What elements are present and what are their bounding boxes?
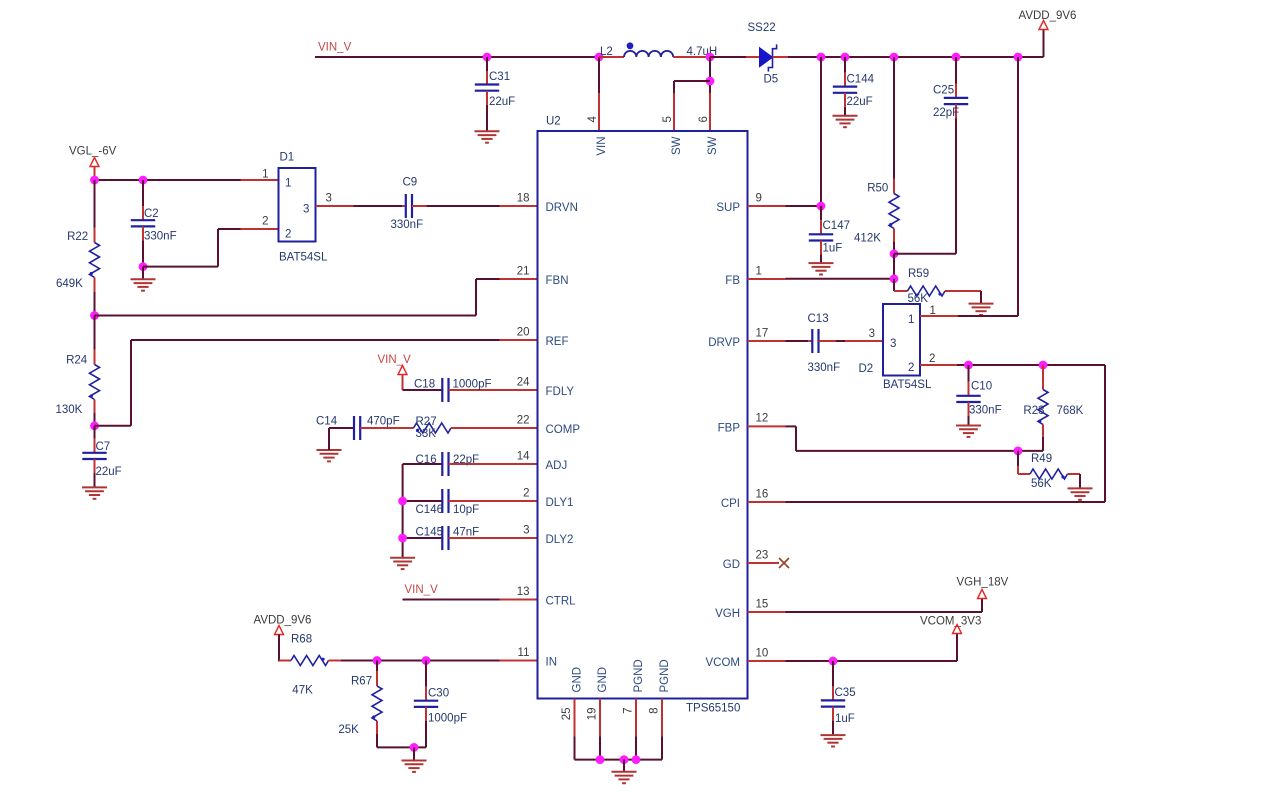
svg-text:C16: C16 (416, 454, 437, 466)
svg-text:13: 13 (517, 586, 530, 598)
wire SW6 pin 6 drop (709, 57, 711, 131)
svg-text:SS22: SS22 (748, 22, 776, 34)
svg-text:1: 1 (756, 265, 762, 277)
capacitor C13 330nF (748, 313, 884, 374)
pin 12 FBP (718, 413, 769, 435)
wire FB net (748, 254, 895, 279)
pin 2 DLY1 (523, 487, 573, 509)
pin 19 GND (587, 667, 610, 720)
svg-text:2: 2 (523, 487, 529, 499)
svg-text:D1: D1 (280, 151, 295, 163)
capacitor C30 1000pF (414, 661, 467, 748)
capacitor C145 47nF (403, 526, 538, 550)
ground (IC GND pins) (612, 760, 637, 784)
ground (R67/C30) (402, 747, 427, 772)
svg-text:2: 2 (285, 228, 291, 240)
svg-text:1000pF: 1000pF (453, 378, 492, 390)
svg-text:1: 1 (908, 314, 914, 326)
wire REF net (95, 340, 538, 426)
svg-text:PGND: PGND (633, 659, 645, 692)
pin 15 VGH (715, 598, 768, 620)
svg-text:AVDD_9V6: AVDD_9V6 (1019, 10, 1077, 22)
node R67 tap (373, 656, 382, 665)
resistor R67 25K (338, 661, 382, 748)
ground (C31) (475, 131, 500, 142)
wire GND bus tie (575, 759, 663, 761)
node D2 pin1 branch junction (1014, 53, 1023, 62)
pin 8 PGND (649, 659, 672, 714)
node C2 tap (139, 176, 148, 185)
resistor R27 33K (414, 416, 538, 440)
wire AVDD rail top (821, 56, 1044, 58)
svg-text:C13: C13 (808, 313, 829, 325)
power symbol VIN_V (FDLY) (398, 366, 407, 391)
pin 5 SW (662, 116, 683, 155)
ground (C10) (956, 426, 981, 437)
node DLY2 tap (398, 534, 407, 543)
wire GND pin 25 (574, 699, 576, 760)
svg-text:2: 2 (908, 362, 914, 374)
node VIN_V / C31 junction (483, 53, 492, 62)
wire R67/C30 bottom tie (377, 746, 426, 748)
svg-text:DLY2: DLY2 (546, 534, 574, 546)
svg-text:R59: R59 (908, 268, 929, 280)
svg-text:2: 2 (929, 353, 935, 365)
ground (R49) (1068, 488, 1093, 499)
capacitor C25 22pF (894, 57, 968, 254)
svg-text:VIN_V: VIN_V (405, 584, 439, 596)
ground (C35) (821, 735, 846, 746)
net label VGL_-6V (69, 146, 117, 158)
node R22/R24/FBN junction (90, 311, 99, 320)
wire VGL rail (94, 179, 279, 181)
wire VGH net + power symbol VGH_18V (748, 590, 987, 613)
capacitor C16 22pF (403, 452, 538, 476)
capacitor C144 22uF (833, 57, 875, 116)
svg-text:19: 19 (587, 708, 599, 721)
svg-text:D5: D5 (764, 74, 779, 86)
ground (R59) (969, 304, 994, 315)
svg-text:C35: C35 (835, 687, 856, 699)
node FBP/R23/R49 junction (1014, 447, 1023, 456)
svg-text:REF: REF (546, 336, 569, 348)
svg-text:BAT54SL: BAT54SL (279, 251, 328, 263)
svg-text:330nF: 330nF (144, 231, 177, 243)
resistor R59 56K (894, 268, 981, 305)
svg-text:FBN: FBN (546, 275, 569, 287)
capacitor C7 22uF (82, 426, 121, 487)
svg-text:L2: L2 (600, 46, 613, 58)
svg-text:COMP: COMP (546, 424, 581, 436)
svg-text:VIN_V: VIN_V (378, 354, 412, 366)
svg-text:R68: R68 (291, 633, 312, 645)
svg-text:12: 12 (756, 413, 769, 425)
node D5/C144 junction (817, 53, 826, 62)
svg-text:C18: C18 (414, 378, 435, 390)
node DLY1 tap (398, 497, 407, 506)
svg-text:8: 8 (649, 708, 661, 714)
svg-text:PGND: PGND (659, 659, 671, 692)
node FB/R59 junction (890, 274, 899, 283)
wire SW5 pin 5 jog (674, 81, 710, 131)
svg-text:21: 21 (517, 265, 530, 277)
svg-text:16: 16 (756, 488, 769, 500)
pin 7 PGND (623, 659, 646, 714)
svg-text:22uF: 22uF (847, 96, 873, 108)
diode D5 SS22 (710, 22, 821, 86)
wire CTRL net (403, 599, 538, 601)
wire D1 pin2 jog (143, 229, 279, 267)
svg-text:DRVP: DRVP (708, 337, 740, 349)
node R24/C7/REF junction (90, 421, 99, 430)
svg-text:1: 1 (285, 177, 291, 189)
svg-text:22: 22 (517, 414, 530, 426)
power symbol AVDD_9V6 (top right) (1019, 10, 1077, 57)
node GND pin19 (596, 755, 605, 764)
svg-text:VGL_-6V: VGL_-6V (69, 146, 117, 158)
node VIN pin junction (595, 53, 604, 62)
inductor L2 4.7uH (599, 42, 717, 58)
node SUP/C147 junction (817, 202, 826, 211)
svg-text:47nF: 47nF (453, 527, 479, 539)
svg-text:R50: R50 (867, 183, 888, 195)
node C2/D1 pin2/ground junction (139, 262, 148, 271)
svg-text:22pF: 22pF (453, 454, 479, 466)
svg-text:R49: R49 (1031, 453, 1052, 465)
capacitor C35 1uF (821, 661, 856, 735)
svg-text:14: 14 (517, 450, 530, 462)
capacitor C10 330nF (956, 365, 1001, 425)
resistor R22 649K (56, 180, 100, 316)
pin 23 GD (723, 549, 769, 571)
svg-text:130K: 130K (56, 404, 83, 416)
svg-text:C31: C31 (489, 71, 510, 83)
svg-text:VIN: VIN (596, 137, 608, 156)
svg-text:ADJ: ADJ (546, 460, 568, 472)
svg-text:VCOM: VCOM (706, 657, 741, 669)
resistor R50 412K (854, 57, 899, 254)
pin 1 FB (725, 265, 762, 287)
svg-text:VCOM_3V3: VCOM_3V3 (920, 615, 981, 627)
svg-text:25K: 25K (338, 724, 359, 736)
wire ADJ/DLY ground column (402, 464, 404, 558)
svg-text:VIN_V: VIN_V (318, 42, 352, 54)
wire SUP net (748, 57, 822, 206)
pin 17 DRVP (708, 327, 768, 349)
node C144 junction (841, 53, 850, 62)
svg-text:3: 3 (890, 338, 896, 350)
svg-text:22uF: 22uF (489, 96, 515, 108)
svg-text:VGH: VGH (715, 608, 740, 620)
svg-text:6: 6 (698, 116, 710, 122)
node R50 junction (890, 53, 899, 62)
svg-text:24: 24 (517, 376, 530, 388)
resistor R24 130K (56, 316, 100, 426)
ground (C144) (833, 116, 858, 127)
net label VGH_18V (957, 576, 1009, 588)
svg-text:3: 3 (869, 328, 875, 340)
svg-text:SW: SW (707, 136, 719, 155)
svg-text:SUP: SUP (716, 202, 740, 214)
diode D1 BAT54SL (262, 151, 332, 263)
svg-text:D2: D2 (859, 363, 874, 375)
svg-text:C25: C25 (933, 85, 954, 97)
resistor R49 56K (1018, 451, 1080, 490)
wire FBP net (748, 426, 1019, 451)
svg-text:33K: 33K (416, 428, 437, 440)
pin 16 CPI (721, 488, 768, 510)
pin 4 VIN (587, 116, 608, 156)
svg-text:22pF: 22pF (933, 107, 959, 119)
ground (C2) (131, 267, 156, 291)
svg-text:R67: R67 (351, 676, 372, 688)
svg-text:1000pF: 1000pF (428, 713, 467, 725)
svg-text:SW: SW (671, 136, 683, 155)
svg-text:AVDD_9V6: AVDD_9V6 (254, 615, 312, 627)
node SW5 tie-in (706, 77, 715, 86)
power symbol AVDD_9V6 (IN) (275, 626, 284, 662)
svg-text:25: 25 (561, 708, 573, 721)
svg-text:23: 23 (756, 549, 769, 561)
svg-text:FBP: FBP (718, 422, 741, 434)
svg-text:C2: C2 (144, 208, 159, 220)
svg-text:C144: C144 (847, 74, 875, 86)
svg-text:768K: 768K (1057, 405, 1084, 417)
svg-text:TPS65150: TPS65150 (686, 702, 740, 714)
capacitor C9 330nF (316, 176, 538, 231)
node GND stem (620, 755, 629, 764)
svg-text:R23: R23 (1023, 405, 1044, 417)
node C35 tap (829, 657, 838, 666)
svg-text:FB: FB (725, 275, 740, 287)
pin 21 FBN (517, 265, 569, 287)
node C25 junction (952, 53, 961, 62)
capacitor C31 (475, 57, 515, 131)
svg-text:CPI: CPI (721, 498, 740, 510)
svg-text:22uF: 22uF (96, 466, 122, 478)
capacitor C18 1000pF (403, 378, 538, 402)
pin 6 SW (698, 116, 719, 155)
svg-text:4: 4 (587, 116, 599, 123)
power symbol VGL_-6V (90, 158, 99, 181)
svg-text:C30: C30 (428, 688, 449, 700)
wire CPI net (748, 501, 1106, 503)
pin 24 FDLY (517, 376, 575, 398)
node R23 tap (1039, 361, 1048, 370)
ground (C7) (82, 487, 107, 498)
wire PGND pin 8 (661, 699, 663, 760)
svg-text:R27: R27 (416, 416, 437, 428)
wire VIN pin 4 drop (598, 57, 600, 131)
svg-text:1: 1 (262, 168, 268, 180)
diode D2 BAT54SL (859, 304, 936, 391)
wire R23 to FBP node (1018, 450, 1043, 452)
svg-text:C146: C146 (416, 504, 444, 516)
pin 9 SUP (716, 192, 762, 214)
svg-text:20: 20 (517, 326, 530, 338)
wire VCOM net + power symbol VCOM_3V3 (748, 625, 962, 662)
pin 14 ADJ (517, 450, 568, 472)
svg-text:C14: C14 (316, 416, 338, 428)
capacitor C14 470pF (316, 416, 414, 462)
node SW6 junction top (706, 53, 715, 62)
svg-text:3: 3 (326, 192, 332, 204)
svg-text:FDLY: FDLY (546, 386, 575, 398)
svg-text:9: 9 (756, 192, 762, 204)
net label VCOM_3V3 (920, 615, 981, 627)
svg-text:C147: C147 (823, 220, 851, 232)
svg-text:GD: GD (723, 559, 740, 571)
node ground stem (R67/C30) (410, 743, 419, 752)
net label VIN_V (FDLY) (378, 354, 412, 366)
svg-text:56K: 56K (1031, 478, 1052, 490)
svg-text:3: 3 (303, 203, 309, 215)
pin 22 COMP (517, 414, 581, 436)
wire D2 pin2 / VGH boost node (920, 365, 1105, 502)
svg-text:1uF: 1uF (835, 713, 855, 725)
wire FBN net (95, 279, 538, 316)
svg-text:330nF: 330nF (808, 362, 841, 374)
capacitor C146 10pF (403, 489, 538, 516)
svg-text:47K: 47K (292, 684, 313, 696)
svg-text:7: 7 (623, 708, 635, 714)
node VGL/R22 (90, 176, 99, 185)
net label VIN_V (318, 42, 352, 54)
wire GND pin 19 (599, 699, 601, 760)
pin 11 IN (518, 647, 557, 669)
svg-text:470pF: 470pF (367, 416, 400, 428)
node C10 tap (964, 361, 973, 370)
svg-text:C145: C145 (416, 527, 444, 539)
svg-text:1uF: 1uF (823, 243, 843, 255)
node R50/C25 junction (890, 249, 899, 258)
svg-text:10: 10 (756, 647, 769, 659)
net label AVDD_9V6 (IN) (254, 615, 312, 627)
capacitor C2 (131, 180, 177, 267)
svg-text:2: 2 (262, 216, 268, 228)
node PGND pin7 (632, 755, 641, 764)
pin 3 DLY2 (523, 524, 573, 546)
svg-text:C9: C9 (403, 176, 418, 188)
svg-text:17: 17 (756, 327, 769, 339)
svg-text:GND: GND (572, 667, 584, 693)
svg-text:GND: GND (597, 667, 609, 693)
svg-text:DRVN: DRVN (546, 202, 578, 214)
svg-text:15: 15 (756, 598, 769, 610)
pin 10 VCOM (706, 647, 769, 669)
pin 18 DRVN (517, 192, 578, 214)
svg-text:5: 5 (662, 116, 674, 122)
svg-text:BAT54SL: BAT54SL (883, 379, 932, 391)
svg-text:330nF: 330nF (969, 405, 1002, 417)
node C30 tap (422, 656, 431, 665)
wire VIN_V top rail (315, 56, 599, 58)
svg-text:11: 11 (518, 647, 530, 659)
svg-text:U2: U2 (546, 115, 561, 127)
svg-text:IN: IN (546, 657, 558, 669)
wire IN net (377, 660, 538, 662)
wire GD no-connect (748, 558, 790, 568)
svg-text:C10: C10 (971, 381, 992, 393)
svg-text:CTRL: CTRL (546, 596, 577, 608)
svg-text:R24: R24 (66, 354, 88, 366)
svg-text:649K: 649K (56, 278, 83, 290)
svg-text:412K: 412K (854, 233, 881, 245)
svg-text:3: 3 (523, 524, 529, 536)
pin 25 GND (561, 667, 584, 720)
svg-text:R22: R22 (67, 231, 88, 243)
net label VIN_V (CTRL) (405, 584, 439, 596)
ground (C147) (809, 263, 834, 274)
svg-text:DLY1: DLY1 (546, 497, 574, 509)
wire PGND pin 7 (635, 699, 637, 760)
pin 13 CTRL (517, 586, 576, 608)
svg-text:VGH_18V: VGH_18V (957, 576, 1009, 588)
wire D2 pin1 to AVDD rail (920, 57, 1018, 316)
capacitor C147 1uF (809, 206, 850, 263)
pin 20 REF (517, 326, 569, 348)
svg-text:C7: C7 (96, 441, 111, 453)
svg-text:18: 18 (517, 192, 530, 204)
svg-text:330nF: 330nF (391, 219, 424, 231)
svg-text:10pF: 10pF (453, 504, 479, 516)
ground (C16/C146/C145) (390, 558, 415, 569)
resistor R68 47K (279, 633, 377, 696)
op-amp U2 TPS65150 body (538, 115, 748, 714)
resistor R23 768K (1023, 365, 1083, 451)
